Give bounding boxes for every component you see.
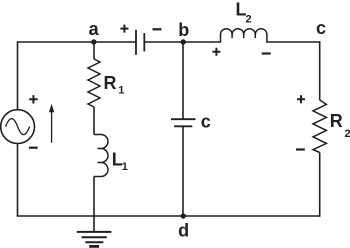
svg-text:c: c bbox=[201, 111, 211, 131]
svg-text:b: b bbox=[178, 20, 189, 40]
svg-text:d: d bbox=[178, 220, 189, 240]
svg-text:c: c bbox=[316, 18, 326, 38]
svg-text:R: R bbox=[104, 73, 117, 93]
svg-text:1: 1 bbox=[122, 161, 128, 173]
svg-text:R: R bbox=[330, 111, 343, 131]
svg-text:1: 1 bbox=[118, 85, 124, 97]
svg-text:a: a bbox=[89, 19, 100, 39]
svg-text:2: 2 bbox=[345, 128, 350, 140]
svg-text:2: 2 bbox=[246, 14, 252, 26]
